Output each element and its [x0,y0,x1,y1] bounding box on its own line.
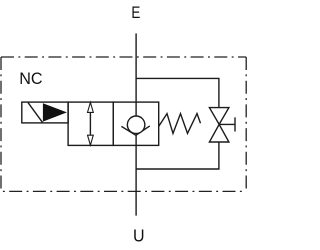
enclosure border bottom [1,190,246,192]
wire relief valve bottom return [136,142,219,169]
spring [159,114,201,134]
relief valve upper triangle [209,108,229,125]
valve position square 2 [113,102,158,145]
relief valve side tap T [219,117,235,131]
svg-text:E: E [131,4,140,23]
solenoid armature triangle (filled) [43,103,67,121]
svg-text:NC: NC [19,69,42,88]
flow arrow head top [88,102,94,112]
wire E inlet [135,33,137,116]
wire top branch to relief valve [136,78,219,107]
valve position square 1 [68,102,113,145]
svg-text:U: U [133,226,145,246]
solenoid diagonal [28,103,43,123]
enclosure border left [0,57,2,192]
enclosure border top [1,56,246,58]
wire U outlet [135,135,137,215]
solenoid box [22,102,68,123]
enclosure border right [245,57,247,191]
flow arrow shaft [89,103,91,144]
flow arrow head bottom [88,135,94,145]
check valve ball [127,116,145,134]
relief valve lower triangle [209,124,229,142]
check valve seat V [121,126,149,135]
